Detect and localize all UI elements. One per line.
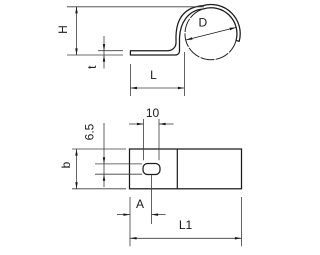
svg-text:b: b bbox=[59, 161, 73, 168]
L1 arrow right bbox=[235, 237, 242, 240]
clip strip side view (flat base, vertical riser, wrapped loop) bbox=[130, 4, 240, 55]
svg-text:L1: L1 bbox=[179, 218, 193, 232]
plan view bend line bbox=[176, 149, 178, 189]
H arrow down bbox=[75, 48, 78, 55]
b arrow down bbox=[75, 182, 78, 189]
A arrow left-pointing bbox=[152, 213, 159, 216]
D arrow upper-right bbox=[230, 27, 237, 30]
dimension b extension bottom bbox=[72, 188, 126, 190]
dimension t extension line top bbox=[98, 50, 123, 52]
dimension H extension line top bbox=[67, 6, 204, 8]
10 arrow left-pointing bbox=[159, 123, 166, 126]
slot hole bbox=[143, 164, 160, 175]
dimension A extension slot centre bbox=[151, 175, 153, 225]
cable circle (clamp inner diameter, visible arc) bbox=[185, 9, 236, 60]
dimension L extension right bbox=[184, 52, 186, 96]
b arrow up bbox=[75, 149, 78, 156]
svg-text:t: t bbox=[85, 65, 99, 69]
dimension 10 line left bbox=[129, 123, 144, 125]
dimension 10 line right bbox=[159, 123, 174, 125]
L1 arrow left bbox=[130, 237, 137, 240]
dimension A extension left (shared with L1) bbox=[129, 197, 131, 246]
dimension L line bbox=[130, 87, 184, 89]
dimension 6.5 extension bottom bbox=[95, 173, 142, 175]
svg-text:H: H bbox=[56, 25, 70, 34]
dimension 6.5 line bbox=[103, 123, 105, 187]
6.5 arrow up bbox=[103, 174, 106, 181]
L arrow right bbox=[178, 87, 185, 90]
dimension A line right bbox=[152, 214, 166, 216]
dimension b line bbox=[76, 149, 78, 189]
plan view rectangle bbox=[130, 149, 242, 189]
L arrow left bbox=[130, 87, 137, 90]
dimension 10 extension right bbox=[158, 119, 160, 160]
10 arrow right-pointing bbox=[137, 123, 144, 126]
t arrow up bbox=[103, 55, 106, 62]
svg-text:L: L bbox=[150, 68, 157, 82]
dimension L1 line bbox=[130, 237, 242, 239]
svg-text:D: D bbox=[198, 15, 207, 29]
svg-text:6.5: 6.5 bbox=[83, 123, 97, 140]
t arrow down bbox=[103, 44, 106, 51]
dimension b extension top bbox=[72, 148, 126, 150]
dimension L extension left bbox=[129, 64, 131, 96]
dimension A line left bbox=[117, 214, 130, 216]
6.5 arrow down bbox=[103, 157, 106, 164]
svg-text:10: 10 bbox=[146, 106, 160, 120]
dimension H line bbox=[76, 7, 78, 55]
H arrow up bbox=[75, 7, 78, 14]
dimension 10 extension left bbox=[143, 119, 145, 160]
svg-text:A: A bbox=[136, 197, 144, 211]
dimension H/t extension line bottom bbox=[67, 54, 123, 56]
D arrow lower-left bbox=[186, 37, 193, 40]
dimension 6.5 extension top bbox=[95, 163, 142, 165]
A arrow right-pointing bbox=[123, 213, 130, 216]
dimension D line bbox=[186, 27, 236, 40]
dimension t line bbox=[103, 36, 105, 69]
dimension L1 extension right bbox=[241, 197, 243, 246]
